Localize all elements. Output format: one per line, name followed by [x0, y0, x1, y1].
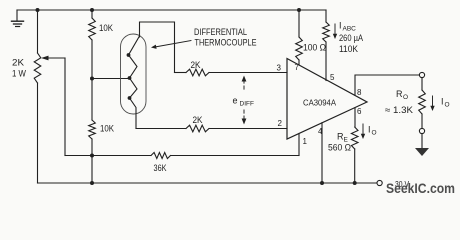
svg-text:I: I: [441, 97, 444, 107]
svg-text:I: I: [368, 125, 371, 135]
svg-text:110K: 110K: [339, 44, 358, 54]
svg-text:e: e: [233, 96, 238, 106]
svg-text:3: 3: [277, 64, 282, 73]
svg-text:O: O: [403, 94, 408, 101]
svg-text:10K: 10K: [99, 23, 113, 33]
svg-text:ABC: ABC: [343, 26, 357, 33]
svg-text:CA3094A: CA3094A: [303, 98, 336, 108]
svg-text:5: 5: [330, 73, 335, 82]
svg-text:7: 7: [295, 63, 300, 72]
svg-text:4: 4: [318, 127, 323, 136]
svg-text:≈ 1.3K: ≈ 1.3K: [385, 105, 413, 115]
svg-text:SeekIC.com: SeekIC.com: [386, 180, 455, 196]
svg-text:2K: 2K: [12, 58, 24, 68]
svg-text:2K: 2K: [193, 115, 203, 125]
svg-text:1 W: 1 W: [12, 69, 26, 79]
svg-text:DIFFERENTIAL: DIFFERENTIAL: [194, 27, 247, 37]
svg-text:1: 1: [303, 137, 308, 146]
svg-text:DIFF: DIFF: [240, 101, 254, 108]
svg-text:O: O: [372, 130, 377, 137]
svg-text:36K: 36K: [154, 163, 167, 173]
svg-text:2K: 2K: [191, 60, 201, 70]
svg-text:R: R: [396, 89, 403, 99]
svg-text:6: 6: [357, 107, 362, 116]
svg-text:260 µA: 260 µA: [339, 33, 363, 43]
svg-text:560 Ω: 560 Ω: [328, 143, 351, 153]
svg-text:10K: 10K: [100, 124, 114, 134]
svg-text:100 Ω: 100 Ω: [303, 43, 326, 53]
svg-text:8: 8: [357, 88, 362, 97]
svg-text:I: I: [339, 21, 342, 31]
svg-text:THERMOCOUPLE: THERMOCOUPLE: [195, 38, 257, 48]
svg-text:O: O: [445, 102, 450, 109]
svg-text:2: 2: [278, 119, 283, 128]
